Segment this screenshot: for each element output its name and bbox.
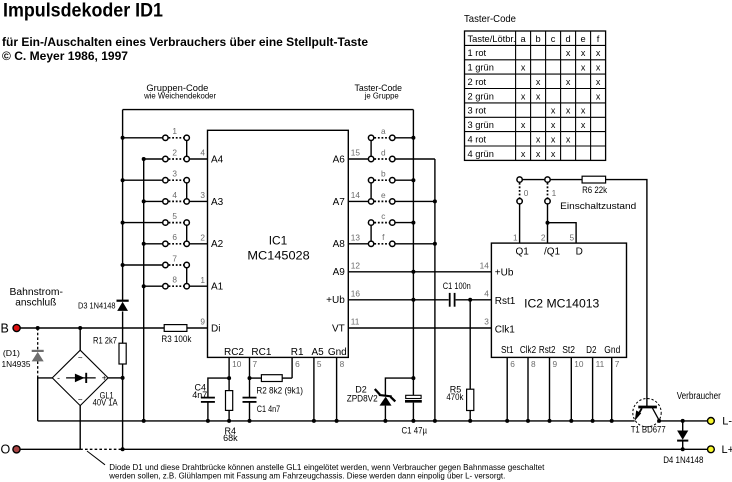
IC IC2 MC14013: [491, 243, 626, 357]
svg-text:x: x: [596, 48, 601, 58]
svg-text:16: 16: [351, 289, 361, 299]
svg-text:+Ub: +Ub: [326, 295, 345, 306]
svg-text:x: x: [581, 48, 586, 58]
svg-text:1: 1: [513, 233, 518, 243]
svg-text:40V 1A: 40V 1A: [93, 397, 118, 407]
wire: ground rail: [38, 420, 635, 422]
svg-text:/Q1: /Q1: [544, 246, 561, 257]
Gruppen-Code header: [143, 83, 216, 101]
wire: T1 collector to L- terminal: [657, 419, 707, 423]
svg-text:1: 1: [200, 275, 205, 285]
svg-text:470k: 470k: [446, 392, 463, 402]
svg-text:d: d: [381, 147, 386, 157]
svg-text:A1: A1: [211, 282, 224, 293]
svg-text:D3 1N4148: D3 1N4148: [78, 300, 116, 310]
svg-text:x: x: [536, 77, 541, 87]
svg-text:x: x: [566, 106, 571, 116]
wire: C1 100n to IC2 Rst1 (4): [456, 289, 492, 302]
node: ground bus dots rows e,f: [433, 199, 437, 245]
svg-text:~: ~: [78, 396, 83, 405]
wire: A9 (12) to IC2 +Ub (14): [348, 261, 491, 274]
capacitor C4 4n7: [192, 378, 229, 423]
svg-text:Rst2: Rst2: [539, 345, 556, 356]
terminal B: [1, 321, 21, 335]
diode D3 1N4148: [78, 300, 129, 311]
node: junction dots odd bus rows 1,3,5,7: [121, 136, 125, 267]
svg-text:6: 6: [172, 232, 177, 242]
jumper 1 (Gruppen-Code): [123, 126, 190, 140]
svg-text:10: 10: [574, 359, 584, 369]
svg-text:4: 4: [172, 190, 177, 200]
svg-text:11: 11: [596, 359, 605, 369]
svg-text:8: 8: [172, 275, 177, 285]
IC1 bottom pin numbers: [232, 359, 345, 369]
svg-text:Gnd: Gnd: [604, 345, 620, 356]
resistor R4 68k: [223, 391, 238, 444]
svg-text:L-: L-: [722, 416, 732, 428]
footnote text: [108, 463, 545, 480]
svg-text:VT: VT: [332, 323, 345, 334]
wire: O rail to L+: [123, 447, 708, 451]
wire: jumper to ground bus: [395, 200, 435, 202]
node: junction dots even bus rows 2,4,6,8 and at ground rail: [142, 157, 146, 423]
svg-text:werden sollen, z.B. Glühlampen: werden sollen, z.B. Glühlampen mit Fassu…: [108, 471, 505, 480]
jumper 5 (Gruppen-Code): [123, 211, 190, 225]
wire: jumper to ground bus: [395, 243, 435, 245]
svg-text:x: x: [536, 149, 541, 159]
svg-text:2 rot: 2 rot: [468, 77, 487, 87]
svg-text:A9: A9: [333, 267, 346, 278]
wire: link between right jumper pair left circles: [370, 225, 372, 241]
svg-text:5: 5: [569, 233, 574, 243]
svg-text:8: 8: [340, 359, 345, 369]
svg-text:1: 1: [552, 188, 557, 198]
terminal L-: [708, 416, 732, 428]
svg-text:0: 0: [524, 188, 529, 198]
svg-text:A7: A7: [333, 197, 346, 208]
wire: GL1 bottom (AC) to O rail: [79, 406, 81, 450]
resistor R6 22k: [582, 176, 607, 195]
jumper c (Taster-Code): [368, 211, 395, 225]
jumper f (Taster-Code): [368, 232, 395, 246]
jumper 8 (Gruppen-Code): [144, 275, 190, 289]
svg-text:Gnd: Gnd: [328, 347, 347, 358]
bridge rectifier GL1 40V 1A: [52, 350, 117, 407]
svg-text:a: a: [381, 126, 386, 136]
svg-text:R6 22k: R6 22k: [582, 185, 607, 195]
svg-text:x: x: [566, 48, 571, 58]
jumper d (Taster-Code): [368, 147, 395, 161]
transistor T1 BD677: [631, 399, 666, 435]
capacitor C1 47µ (electrolytic): [402, 378, 428, 435]
wire: jumper to ground bus: [395, 158, 435, 160]
svg-text:x: x: [536, 91, 541, 101]
svg-text:je Gruppe: je Gruppe: [364, 92, 399, 101]
title block: [2, 1, 368, 63]
svg-text:b: b: [381, 169, 386, 179]
svg-text:für Ein-/Auschalten eines Verb: für Ein-/Auschalten eines Verbrauchers ü…: [2, 35, 368, 49]
svg-text:x: x: [521, 149, 526, 159]
svg-text:x: x: [536, 134, 541, 144]
jumper 7 (Gruppen-Code): [123, 253, 190, 267]
svg-text:B: B: [1, 321, 9, 335]
terminal L+: [708, 444, 732, 456]
wire: Gnd (8) to ground: [335, 357, 339, 423]
svg-text:5: 5: [317, 359, 322, 369]
svg-text:x: x: [521, 91, 526, 101]
wire: IC1 pin 15 to jumper: [348, 158, 368, 160]
svg-text:IC2 MC14013: IC2 MC14013: [524, 296, 599, 310]
svg-text:5: 5: [172, 211, 177, 221]
svg-text:1N4935: 1N4935: [2, 359, 31, 369]
svg-text:Rst1: Rst1: [495, 296, 516, 307]
wire: R2 to IC1 pin R1 (6): [291, 357, 293, 378]
jumper a (Taster-Code): [368, 126, 395, 140]
jumper e (Taster-Code): [368, 190, 395, 204]
IC2 pin names: [495, 246, 621, 356]
svg-text:x: x: [551, 149, 556, 159]
svg-text:A5: A5: [311, 347, 324, 358]
svg-text:A4: A4: [211, 154, 224, 165]
wire: RC2 (10) node: [227, 357, 231, 390]
svg-text:R3 100k: R3 100k: [161, 334, 191, 344]
resistor R5 470k: [446, 300, 473, 423]
IC2 bottom pins to ground rail: [505, 357, 620, 423]
jumper 4 (Gruppen-Code): [144, 190, 190, 204]
svg-text:9: 9: [200, 317, 205, 327]
svg-text:6: 6: [295, 359, 300, 369]
svg-text:b: b: [536, 34, 541, 44]
wire: GL1 right (plus) to R1/O-line junction: [108, 376, 125, 380]
svg-text:d: d: [566, 34, 571, 44]
svg-text:Di: Di: [211, 323, 220, 334]
svg-text:+: +: [102, 373, 107, 383]
svg-text:R1: R1: [291, 347, 304, 358]
svg-text:1 grün: 1 grün: [468, 63, 494, 73]
svg-text:Verbraucher: Verbraucher: [677, 391, 722, 402]
wire: link between right jumper pair left circles: [370, 183, 372, 199]
wire: IC1 pin 2 (A2): [189, 233, 207, 244]
wire: IC1 pin 1 (A1): [189, 275, 207, 286]
svg-text:-: -: [57, 373, 60, 383]
svg-text:2: 2: [541, 233, 546, 243]
wire: O rail wire bridge (dashed, optional): [80, 447, 124, 451]
svg-text:A2: A2: [211, 239, 224, 250]
svg-text:RC2: RC2: [224, 347, 244, 358]
wire: B line to R3: [20, 326, 164, 330]
svg-text:13: 13: [351, 233, 361, 243]
svg-text:C1 4n7: C1 4n7: [257, 404, 280, 414]
wire: IC1 +Ub (16) to C1 100n: [348, 298, 448, 302]
wire: RC1 (7) node: [248, 357, 252, 397]
svg-text:Impulsdekoder ID1: Impulsdekoder ID1: [3, 1, 163, 22]
wire: ground bus d/e/f (vertical): [433, 159, 437, 423]
wire: link between right jumper pair left circles: [370, 141, 372, 157]
svg-text:14: 14: [480, 261, 490, 271]
svg-text:St1: St1: [501, 345, 514, 356]
terminal O: [1, 442, 21, 456]
resistor R2 8k2 (9k1): [250, 375, 304, 396]
svg-text:6: 6: [510, 359, 515, 369]
svg-text:c: c: [381, 211, 385, 221]
zener diode D2 ZPD8V2: [347, 376, 416, 423]
Taster-Code table: [464, 13, 606, 160]
svg-text:Taster-Code: Taster-Code: [464, 13, 516, 25]
svg-text:2: 2: [200, 233, 205, 243]
svg-text:3: 3: [484, 317, 489, 327]
svg-text:68k: 68k: [223, 433, 238, 443]
svg-text:4n7: 4n7: [192, 390, 207, 400]
svg-text:4: 4: [200, 148, 205, 158]
wire: link between jumper pair right circles: [186, 183, 188, 199]
wire: IC1 pin 14 to jumper: [348, 200, 368, 202]
jumper 2 (Gruppen-Code): [144, 147, 190, 161]
svg-text:8: 8: [531, 359, 536, 369]
svg-text:x: x: [581, 120, 586, 130]
svg-text:O: O: [1, 442, 11, 456]
capacitor C1 4n7: [243, 398, 281, 423]
svg-text:Einschaltzustand: Einschaltzustand: [560, 201, 636, 212]
svg-text:14: 14: [351, 190, 361, 200]
svg-text:Bahnstrom-: Bahnstrom-: [10, 287, 63, 298]
svg-text:7: 7: [615, 359, 620, 369]
svg-text:10: 10: [232, 359, 242, 369]
wire: +Ub bus (vertical): [412, 110, 414, 379]
IC1 right pin numbers: [351, 148, 361, 327]
wire: jumper 1 to IC2 /Q1 (2) and D (5): [541, 204, 576, 243]
wire: IC1 pin 3 (A3): [189, 190, 207, 201]
svg-text:D2: D2: [586, 345, 597, 356]
svg-text:9: 9: [553, 359, 558, 369]
svg-text:3 grün: 3 grün: [468, 120, 494, 130]
wire: GL1 left (minus) to ground rail: [38, 378, 53, 421]
svg-text:e: e: [581, 34, 586, 44]
wire: GL1 top (AC) to B line: [79, 328, 81, 350]
wire: odd jumper bus (vertical, continues down through D3/R1 to O rail): [122, 110, 124, 450]
svg-text:~: ~: [78, 353, 83, 362]
svg-text:anschluß: anschluß: [15, 297, 56, 308]
svg-text:ZPD8V2: ZPD8V2: [347, 394, 378, 404]
svg-text:A6: A6: [333, 154, 346, 165]
svg-text:f: f: [597, 34, 600, 44]
svg-text:11: 11: [351, 317, 360, 327]
svg-text:Q1: Q1: [516, 246, 530, 257]
svg-text:+Ub: +Ub: [495, 268, 514, 279]
wire: link between jumper pair right circles: [186, 225, 188, 241]
svg-text:R2 8k2 (9k1): R2 8k2 (9k1): [256, 386, 303, 396]
label Verbraucher: [677, 391, 722, 402]
svg-text:D4 1N4148: D4 1N4148: [663, 455, 703, 465]
svg-text:x: x: [581, 106, 586, 116]
svg-text:x: x: [566, 77, 571, 87]
svg-text:1: 1: [172, 126, 177, 136]
svg-text:IC1: IC1: [269, 233, 288, 247]
svg-text:4 rot: 4 rot: [468, 134, 487, 144]
svg-text:2: 2: [172, 147, 177, 157]
wire: R6 to T1 base: [606, 180, 647, 407]
svg-text:x: x: [596, 91, 601, 101]
jumper 1 (Einschaltzustand): [545, 177, 557, 204]
svg-text:R1 2k7: R1 2k7: [93, 335, 117, 345]
svg-text:MC145028: MC145028: [247, 248, 309, 262]
jumper 3 (Gruppen-Code): [123, 169, 190, 183]
svg-text:© C. Meyer 1986, 1997: © C. Meyer 1986, 1997: [2, 49, 128, 63]
svg-text:x: x: [551, 106, 556, 116]
wire: VT (11) to IC2 Clk1 (3): [348, 317, 491, 328]
wire: Q1//Q1 select rail to R6: [520, 179, 583, 181]
svg-text:x: x: [581, 63, 586, 73]
svg-text:x: x: [566, 134, 571, 144]
wire: jumper 0 to IC2 Q1 (1): [513, 204, 520, 243]
svg-text:15: 15: [351, 148, 361, 158]
label Einschaltzustand: [560, 201, 636, 212]
svg-text:x: x: [596, 77, 601, 87]
svg-text:x: x: [596, 63, 601, 73]
wire: A5 (5) to ground: [312, 357, 316, 423]
svg-text:A3: A3: [211, 197, 224, 208]
wire: IC1 pin 13 to jumper: [348, 243, 368, 245]
svg-text:3: 3: [172, 169, 177, 179]
svg-text:4 grün: 4 grün: [468, 149, 494, 159]
svg-text:e: e: [381, 190, 386, 200]
svg-text:2 grün: 2 grün: [468, 91, 494, 101]
wire: even jumper bus to ground rail: [143, 159, 145, 421]
wire: R3 to IC1 Di (9): [187, 317, 208, 328]
jumper b (Taster-Code): [368, 169, 395, 183]
IC IC1 MC145028: [208, 130, 349, 357]
svg-text:3 rot: 3 rot: [468, 106, 487, 116]
svg-text:x: x: [521, 120, 526, 130]
svg-text:x: x: [521, 63, 526, 73]
svg-text:7: 7: [172, 253, 177, 263]
jumper 6 (Gruppen-Code): [144, 232, 190, 246]
svg-text:RC1: RC1: [251, 347, 271, 358]
svg-text:x: x: [551, 120, 556, 130]
svg-text:Clk2: Clk2: [520, 345, 537, 356]
wire: jumper to +Ub bus: [395, 221, 415, 225]
wire: jumper to +Ub bus: [395, 178, 415, 182]
svg-text:c: c: [551, 34, 556, 44]
svg-text:A8: A8: [333, 239, 346, 250]
IC1 pin names right: [326, 154, 345, 334]
jumper 0 (Einschaltzustand): [517, 177, 529, 204]
wire: link between jumper pair right circles: [186, 268, 188, 284]
svg-text:12: 12: [351, 261, 361, 271]
svg-text:7: 7: [253, 359, 258, 369]
svg-text:C1 100n: C1 100n: [443, 281, 471, 291]
svg-text:Clk1: Clk1: [495, 324, 515, 335]
footnote callout line: [87, 451, 105, 465]
svg-text:3: 3: [200, 190, 205, 200]
wire: O rail left segment: [20, 448, 80, 450]
wire: jumper to +Ub bus: [395, 136, 415, 140]
svg-text:L+: L+: [722, 444, 732, 456]
resistor R3 100k: [161, 325, 191, 344]
wire: top rail from odd bus to +Ub bus: [123, 109, 414, 111]
svg-text:Taste/Lötbr.: Taste/Lötbr.: [468, 34, 516, 44]
svg-text:St2: St2: [562, 345, 575, 356]
resistor R1 2k7: [93, 335, 126, 364]
wire: link between jumper pair right circles: [186, 141, 188, 157]
capacitor C1 100n: [443, 281, 471, 307]
svg-text:T1 BD677: T1 BD677: [631, 425, 666, 435]
wire: IC1 pin 4 (A4): [189, 148, 207, 159]
svg-text:a: a: [521, 34, 527, 44]
svg-text:4: 4: [484, 289, 489, 299]
diode D4 1N4148: [663, 419, 703, 465]
diode D1 1N4935 (optional, grey): [2, 328, 44, 378]
svg-text:C1 47µ: C1 47µ: [402, 426, 428, 436]
svg-text:x: x: [551, 134, 556, 144]
Taster-Code header: [355, 83, 403, 101]
IC1 pin names left: [211, 154, 224, 334]
svg-text:(D1): (D1): [3, 348, 20, 358]
label Bahnstromanschluss: [10, 287, 63, 309]
svg-text:wie Weichendekoder: wie Weichendekoder: [143, 92, 216, 101]
IC1 pin names bottom: [224, 347, 347, 358]
svg-text:1 rot: 1 rot: [468, 48, 487, 58]
svg-text:D: D: [576, 246, 583, 257]
